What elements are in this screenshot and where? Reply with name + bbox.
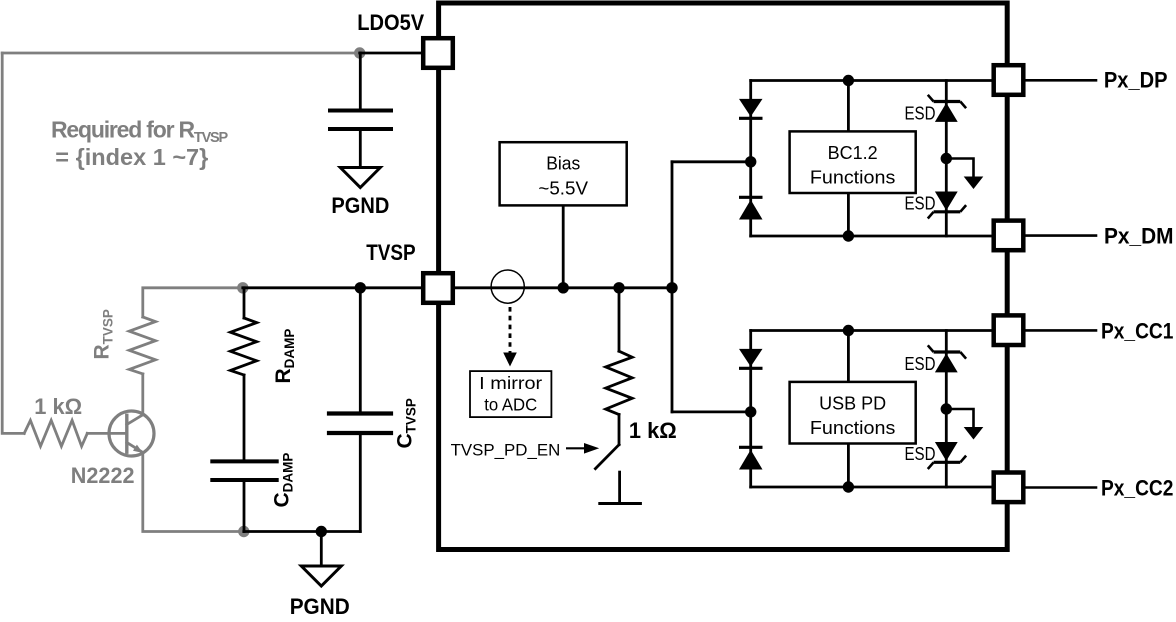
- current sense circle on TVSP rail: [491, 270, 524, 303]
- box: USB PD Functions: [790, 382, 916, 444]
- svg-text:PGND: PGND: [331, 193, 389, 218]
- wire: branch vertical to BC1.2 and USB PD diode nodes: [671, 162, 674, 412]
- svg-text:N2222: N2222: [71, 463, 135, 488]
- svg-text:LDO5V: LDO5V: [357, 10, 424, 35]
- wire: ESD column (lower block): [945, 331, 948, 488]
- svg-text:1 kΩ: 1 kΩ: [34, 394, 82, 419]
- box: I mirror to ADC: [470, 371, 551, 417]
- wire: ESD steering arrow (upper block): [946, 159, 973, 177]
- wire: Q1 collector vertical: [141, 374, 144, 415]
- wire: PGND stub (bottom): [320, 532, 323, 567]
- wire: black LDO5V rail segment to pin: [360, 52, 438, 55]
- diode D3 (Px_CC1 to node): [739, 349, 763, 367]
- svg-text:Px_CC2: Px_CC2: [1101, 475, 1173, 500]
- svg-text:RDAMP: RDAMP: [272, 329, 297, 384]
- svg-text:I mirror: I mirror: [479, 373, 542, 393]
- wire: Px_CC1 external lead: [1025, 329, 1096, 332]
- svg-text:to ADC: to ADC: [484, 395, 537, 415]
- resistor 1 kOhm (gray, base of Q1): [24, 420, 87, 446]
- svg-text:1 kΩ: 1 kΩ: [629, 418, 677, 443]
- node: junction bias / TVSP rail: [558, 282, 569, 293]
- wire: USB PD diode column: [749, 331, 752, 488]
- pin pad TVSP: [423, 273, 453, 303]
- svg-text:Functions: Functions: [810, 168, 896, 188]
- svg-text:~5.5V: ~5.5V: [538, 178, 588, 198]
- wire: USB PD box top lead: [847, 331, 850, 382]
- pin pad Px_CC1: [994, 315, 1024, 345]
- wire: TVSP rail inside IC: [438, 286, 672, 289]
- svg-text:ESD: ESD: [905, 194, 936, 214]
- node: junction pulldown resistor / TVSP rail: [613, 282, 624, 293]
- node: junction TVSP rail / CTVSP: [355, 282, 366, 293]
- wire: Px_DM external lead: [1025, 234, 1096, 237]
- node: BC1.2 box bottom junction: [843, 230, 854, 241]
- wire: black bottom rail: [244, 530, 360, 533]
- svg-text:ESD: ESD: [905, 444, 936, 464]
- pin pad Px_CC2: [994, 473, 1024, 503]
- resistor 1 kOhm pulldown (top lead): [618, 288, 621, 351]
- wire: BC1.2 box top lead: [847, 81, 850, 132]
- zener ESD (lower block upper, cathode to Px_CC1): [935, 353, 958, 372]
- svg-text:BC1.2: BC1.2: [828, 143, 878, 163]
- IC U1 boundary: [439, 3, 1008, 550]
- node: junction right branch / TVSP rail: [666, 282, 677, 293]
- svg-text:RTVSP: RTVSP: [91, 309, 116, 359]
- wire: gray left vertical from LDO5V rail down to 1 kOhm base resistor: [2, 53, 24, 433]
- capacitor CTVSP: [359, 288, 362, 411]
- wire: BC1.2 diode column: [749, 81, 752, 237]
- wire: USB PD box bottom lead: [847, 444, 850, 488]
- ground PGND (bottom): [301, 566, 341, 586]
- node: ESD midpoint (lower block): [941, 403, 952, 414]
- dashed arrow: I mirror to ADC: [509, 307, 512, 353]
- svg-text:USB PD: USB PD: [819, 393, 886, 413]
- arrow: TVSP_PD_EN pointer: [566, 447, 585, 449]
- wire: black TVSP rail from gray node to TVSP pin: [243, 286, 438, 289]
- wire: Px_DP external lead: [1025, 79, 1096, 82]
- node: USB PD diode midpoint: [745, 406, 756, 417]
- node: BC1.2 diode midpoint: [745, 156, 756, 167]
- pin pad LDO5V: [423, 38, 453, 68]
- svg-text:PGND: PGND: [290, 594, 350, 619]
- svg-text:Px_DM: Px_DM: [1104, 224, 1174, 249]
- wire: Px_CC2 rail: [751, 486, 1008, 489]
- ground PGND (top): [340, 168, 380, 188]
- svg-text:= {index 1 ~7}: = {index 1 ~7}: [55, 144, 208, 170]
- wire: Px_DP rail (top): [751, 79, 1008, 82]
- node: USB PD box bottom junction: [843, 481, 854, 492]
- svg-text:Functions: Functions: [810, 418, 896, 438]
- diode D2 (Px_DM to node): [739, 196, 763, 199]
- pin pad Px_DM: [994, 221, 1024, 251]
- wire: base wire to Q1: [87, 432, 127, 435]
- wire: Px_DM rail: [751, 235, 1008, 238]
- resistor RDAMP: [243, 288, 246, 318]
- ground (switch): [618, 472, 621, 503]
- svg-text:Px_CC1: Px_CC1: [1101, 318, 1173, 343]
- switch TVSP_PD_EN blade: [595, 445, 619, 469]
- zener ESD (lower, cathode to Px_DM): [935, 192, 958, 211]
- node: gray junction on TVSP rail: [237, 282, 248, 293]
- zener ESD (upper, cathode to Px_DP): [935, 103, 958, 122]
- node: BC1.2 box top junction: [843, 75, 854, 86]
- box: BC1.2 Functions: [790, 131, 916, 193]
- wire: node wire to USB PD diode pair: [672, 410, 751, 413]
- diode D4 (Px_CC2 to node): [739, 446, 763, 449]
- wire: ESD steering arrow (lower block): [946, 409, 973, 427]
- node: gray junction on bottom rail: [238, 526, 249, 537]
- transistor Q1 N2222: [109, 411, 154, 456]
- svg-text:Bias: Bias: [546, 153, 580, 173]
- wire: gray horizontal LDO5V rail: [2, 52, 360, 55]
- box: Bias ~5.5V: [500, 142, 627, 205]
- svg-text:ESD: ESD: [905, 354, 936, 374]
- node: junction bottom rail / PGND: [316, 526, 327, 537]
- svg-text:Required for RTVSP: Required for RTVSP: [51, 116, 229, 146]
- wire: node wire to BC1.2 diode pair: [672, 160, 751, 163]
- svg-text:CTVSP: CTVSP: [394, 398, 419, 448]
- wire: Px_CC1 rail: [751, 329, 1008, 332]
- wire: ESD column (upper block): [945, 81, 948, 237]
- node: USB PD box top junction: [843, 325, 854, 336]
- svg-text:ESD: ESD: [905, 104, 936, 124]
- resistor RTVSP (gray): [129, 317, 155, 374]
- node: ESD midpoint (upper block): [941, 153, 952, 164]
- wire: Q1 emitter vertical and gray bottom rail: [143, 452, 244, 531]
- wire: BC1.2 box bottom lead: [847, 193, 850, 236]
- node: gray junction on LDO5V rail: [354, 47, 365, 58]
- svg-text:TVSP_PD_EN: TVSP_PD_EN: [451, 440, 561, 459]
- wire: Px_CC2 external lead: [1025, 486, 1096, 489]
- capacitor at LDO5V (top lead): [359, 53, 362, 108]
- bias block lead: [562, 205, 565, 287]
- wire: RTVSP top lead and gray TVSP rail: [143, 288, 243, 317]
- svg-text:Px_DP: Px_DP: [1104, 68, 1168, 93]
- zener ESD (lower block lower, cathode to Px_CC2): [935, 442, 958, 461]
- pin pad Px_DP: [994, 65, 1024, 95]
- diode D1 (Px_DP to node): [739, 99, 763, 117]
- capacitor CDAMP: [212, 459, 276, 463]
- svg-text:TVSP: TVSP: [366, 240, 415, 265]
